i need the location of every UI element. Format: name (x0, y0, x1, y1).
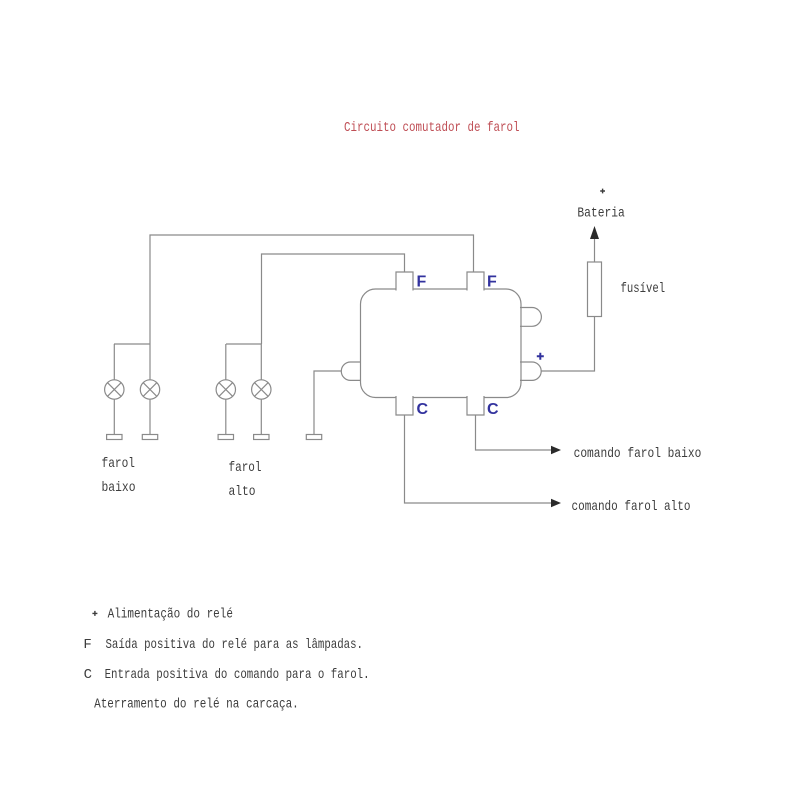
relay right upper bump pin (520, 308, 541, 327)
svg-text:Circuito comutador de farol: Circuito comutador de farol (344, 120, 520, 136)
chassis ground bar (relay) (306, 435, 321, 440)
arrow to battery (590, 226, 599, 239)
wire: lamp L2 drop (149, 344, 151, 380)
label comando farol baixo (574, 446, 702, 462)
svg-text:farol: farol (102, 456, 136, 472)
wire: junction bar farol baixo (114, 343, 150, 345)
wire: lamp L2 to ground (149, 399, 151, 434)
svg-text:F: F (417, 274, 427, 291)
pin label C (right) (487, 401, 499, 418)
svg-text:baixo: baixo (102, 480, 136, 496)
wire: junction bar farol alto (226, 343, 262, 345)
svg-text:F: F (487, 274, 497, 291)
legend symbol F (83, 637, 91, 653)
label fusivel (621, 281, 666, 297)
lamp L2 (farol baixo) (140, 380, 159, 399)
svg-text:C: C (417, 401, 429, 418)
svg-text:comando farol alto: comando farol alto (572, 499, 691, 515)
wire: lamp L3 drop (225, 344, 227, 380)
relay top tab pin F (right) (467, 272, 484, 291)
wire: lamp L4 drop (260, 344, 262, 380)
fuse F1 (fusivel) (588, 262, 602, 317)
label farol alto (229, 460, 262, 500)
svg-text:comando farol baixo: comando farol baixo (574, 446, 702, 462)
legend symbol C (84, 667, 92, 683)
ground bar under L3 (218, 435, 233, 440)
wire: right C tab to comando farol baixo (476, 415, 553, 450)
wire: lamp L4 to ground (260, 399, 262, 434)
svg-text:C: C (84, 667, 92, 683)
title: Circuito comutador de farol (344, 120, 520, 136)
legend text: Aterramento do rele na carcaca (94, 697, 299, 713)
wire: lamp L1 to ground (113, 399, 115, 434)
wire: right F tab to farol baixo lamps (150, 235, 474, 344)
svg-text:Bateria: Bateria (577, 206, 624, 222)
svg-text:C: C (487, 401, 499, 418)
svg-text:Aterramento do relé na carcaça: Aterramento do relé na carcaça. (94, 697, 299, 713)
relay body K1 (361, 289, 522, 398)
wire: + tab to fuse (541, 317, 595, 372)
legend text: Saida positiva do rele para as lampadas (106, 637, 364, 653)
legend text: Entrada positiva do comando para o farol (105, 667, 370, 683)
label farol baixo (102, 456, 136, 496)
legend text: Alimentacao do rele (108, 607, 233, 623)
lamp L1 (farol baixo) (105, 380, 124, 399)
wire: relay left bump to chassis ground (314, 371, 341, 435)
lamp L4 (farol alto) (252, 380, 271, 399)
pin label C (left) (417, 401, 429, 418)
ground bar under L2 (142, 435, 157, 440)
svg-text:Entrada positiva do comando pa: Entrada positiva do comando para o farol… (105, 667, 370, 683)
wire: left C tab to comando farol alto (405, 415, 553, 503)
svg-text:farol: farol (229, 460, 262, 476)
relay bottom tab pin C (right) (467, 396, 484, 415)
wire: left F tab to farol alto lamps (262, 254, 405, 344)
wire: lamp L1 drop (113, 344, 115, 380)
wire: lamp L3 to ground (225, 399, 227, 434)
ground bar under L1 (107, 435, 122, 440)
label Bateria (577, 206, 624, 222)
label comando farol alto (572, 499, 691, 515)
arrow comando farol alto (551, 499, 561, 507)
legend symbol + (92, 611, 97, 616)
node +: battery positive (600, 189, 605, 194)
pin label + (battery feed) (537, 353, 544, 360)
relay bottom tab pin C (left) (396, 396, 413, 415)
relay right tab pin + (520, 362, 541, 380)
svg-text:fusível: fusível (621, 281, 666, 297)
lamp L3 (farol alto) (216, 380, 235, 399)
ground bar under L4 (254, 435, 269, 440)
pin label F (right) (487, 274, 497, 291)
pin label F (left) (417, 274, 427, 291)
relay top tab pin F (left) (396, 272, 413, 291)
svg-text:Alimentação do relé: Alimentação do relé (108, 607, 233, 623)
arrow comando farol baixo (551, 446, 561, 454)
svg-text:F: F (83, 637, 91, 653)
relay left bump pin (ground) (341, 362, 361, 380)
wire: fuse to battery arrow (594, 238, 596, 262)
svg-text:alto: alto (229, 484, 256, 500)
svg-text:Saída positiva do relé para as: Saída positiva do relé para as lâmpadas. (106, 637, 364, 653)
